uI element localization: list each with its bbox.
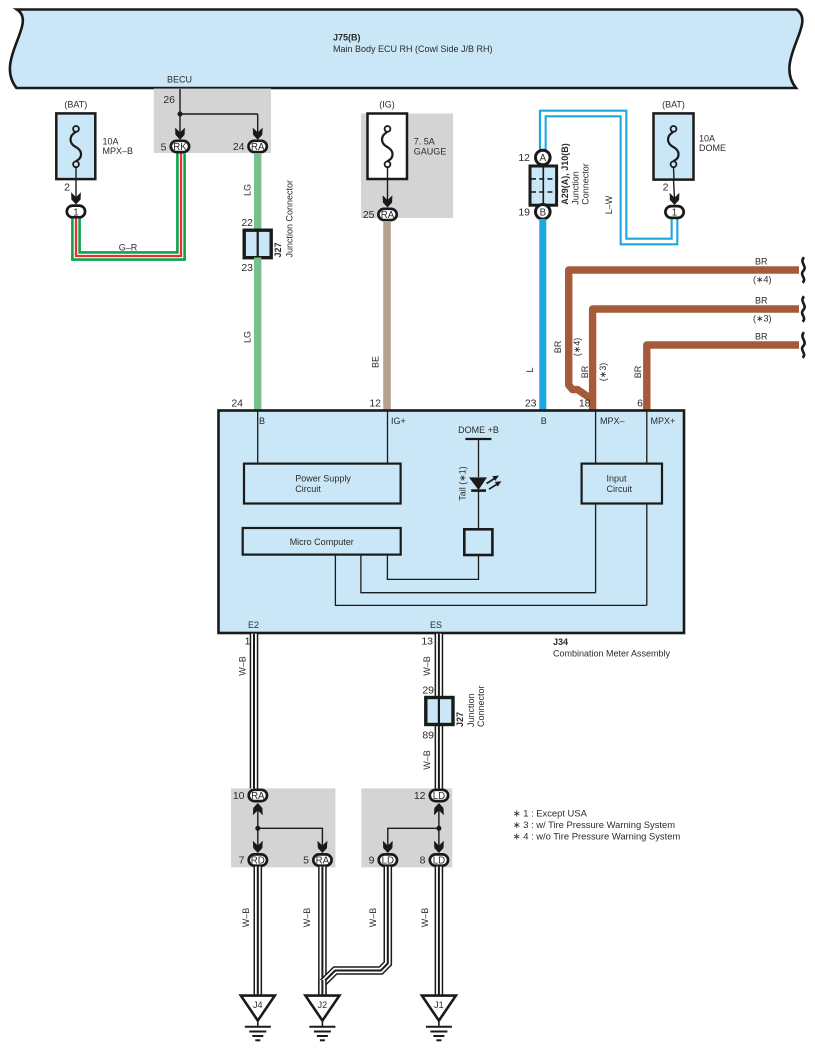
- wire L-W: [543, 114, 675, 242]
- svg-text:MPX–B: MPX–B: [103, 146, 134, 156]
- wire W-B to ground J1: [420, 867, 439, 997]
- svg-text:W–B: W–B: [368, 908, 378, 928]
- connector arrow into RD 7: [253, 841, 263, 853]
- svg-text:J2: J2: [318, 1000, 328, 1010]
- svg-text:Combination Meter Assembly: Combination Meter Assembly: [553, 649, 671, 659]
- svg-text:12: 12: [518, 152, 530, 164]
- ground J4: [241, 996, 275, 1041]
- svg-text:18: 18: [579, 398, 591, 410]
- svg-text:BR: BR: [755, 257, 768, 267]
- shaded relay block left (terminals 10/7/5): [231, 788, 335, 867]
- svg-text:J4: J4: [253, 1000, 263, 1010]
- input circuit block: [582, 464, 662, 504]
- svg-text:2: 2: [663, 182, 669, 194]
- terminal RA pin 24: [233, 141, 267, 153]
- svg-text:G–R: G–R: [119, 243, 138, 253]
- svg-text:LD: LD: [382, 856, 394, 867]
- svg-text:W–B: W–B: [422, 656, 432, 676]
- svg-text:LD: LD: [433, 856, 445, 867]
- connector arrow into LD 9: [383, 841, 393, 853]
- svg-text:B: B: [259, 416, 265, 426]
- svg-text:Micro Computer: Micro Computer: [290, 537, 354, 547]
- terminal RA pin 25: [363, 209, 397, 221]
- svg-text:1: 1: [73, 207, 78, 218]
- svg-text:Circuit: Circuit: [295, 484, 321, 494]
- wire BR (*3): [580, 296, 799, 412]
- svg-text:2: 2: [64, 182, 70, 194]
- connector arrow into LD 8: [434, 841, 444, 853]
- svg-text:W–B: W–B: [420, 908, 430, 928]
- wire fuse DOME to terminal 2: [663, 180, 675, 199]
- svg-text:89: 89: [422, 730, 434, 742]
- notes: [513, 808, 681, 842]
- wire W-B from LD 9 merging to J2: [323, 867, 388, 984]
- svg-text:J75(B): J75(B): [333, 32, 361, 42]
- svg-text:8: 8: [420, 855, 426, 867]
- wire BR (MPX+): [633, 332, 799, 412]
- svg-text:BR: BR: [553, 340, 563, 353]
- svg-text:(BAT): (BAT): [662, 100, 685, 110]
- internal wire pin12 IG+ to power supply: [387, 411, 389, 464]
- wire LG upper: [243, 153, 258, 231]
- wire L: [525, 219, 543, 411]
- connector arrow into terminal 1 (right): [670, 193, 680, 205]
- svg-text:B: B: [540, 207, 546, 218]
- wire BR (*4): [553, 257, 799, 400]
- connector arrow up into RA 10: [253, 803, 263, 815]
- svg-text:L–W: L–W: [604, 195, 614, 214]
- internal wires right relay block: [388, 809, 442, 847]
- svg-text:LG: LG: [243, 331, 253, 343]
- junction connector J27 (pins 22/23): [241, 180, 294, 274]
- internal wire pin24 B to power supply: [257, 411, 259, 464]
- svg-text:BR: BR: [755, 296, 768, 306]
- svg-text:Power Supply: Power Supply: [295, 474, 351, 484]
- svg-text:A: A: [540, 153, 547, 164]
- terminal LD pin 8: [420, 854, 448, 866]
- svg-text:∗ 1 : Except USA: ∗ 1 : Except USA: [513, 808, 588, 819]
- internal wires left relay block: [255, 809, 322, 847]
- svg-text:Main Body ECU RH (Cowl Side J/: Main Body ECU RH (Cowl Side J/B RH): [333, 44, 493, 54]
- wire W-B to ground J4: [241, 867, 258, 997]
- svg-text:W–B: W–B: [422, 750, 432, 770]
- terminal B pin 19: [518, 205, 550, 220]
- svg-text:13: 13: [421, 636, 433, 648]
- svg-text:BE: BE: [371, 356, 381, 368]
- terminal 1 (right): [665, 206, 683, 219]
- wire W-B re-straighten J2: [318, 980, 327, 996]
- svg-text:W–B: W–B: [241, 908, 251, 928]
- fuse DOME 10A (BAT): [654, 100, 727, 180]
- svg-text:Junction: Junction: [571, 171, 581, 205]
- svg-text:(∗3): (∗3): [753, 314, 772, 324]
- svg-text:ES: ES: [430, 620, 442, 630]
- connector arrow into RA 25: [383, 195, 393, 207]
- svg-text:GAUGE: GAUGE: [414, 146, 447, 156]
- terminal LD pin 9: [369, 854, 397, 866]
- svg-text:6: 6: [637, 398, 643, 410]
- svg-text:12: 12: [414, 790, 426, 802]
- svg-text:7: 7: [239, 855, 245, 867]
- svg-text:A29(A), J10(B): A29(A), J10(B): [560, 143, 570, 205]
- svg-text:IG+: IG+: [391, 416, 406, 426]
- svg-text:E2: E2: [248, 620, 259, 630]
- svg-text:Connector: Connector: [476, 685, 486, 727]
- wire break symbol BR3: [802, 332, 805, 358]
- internal routing wires: [335, 555, 646, 606]
- wire W-B from ES pin 13: [422, 634, 439, 790]
- svg-text:5: 5: [161, 142, 167, 154]
- shaded relay block right (terminals 12/9/8): [361, 788, 452, 867]
- connector arrow into RA 24: [253, 128, 263, 140]
- terminal RD pin 7: [239, 854, 267, 866]
- svg-text:7. 5A: 7. 5A: [414, 136, 435, 146]
- svg-text:RD: RD: [251, 856, 265, 867]
- svg-text:RA: RA: [251, 142, 265, 153]
- svg-text:Junction Connector: Junction Connector: [285, 180, 295, 258]
- svg-text:RA: RA: [316, 856, 330, 867]
- svg-text:J1: J1: [434, 1000, 444, 1010]
- svg-text:24: 24: [233, 141, 245, 153]
- wire W-B to ground J2: [302, 867, 322, 997]
- resistor block: [464, 529, 492, 555]
- svg-text:(∗3): (∗3): [598, 363, 608, 382]
- terminal A pin 12: [518, 150, 550, 165]
- wire G-R: [76, 154, 181, 257]
- svg-text:∗ 4 : w/o Tire Pressure Warnin: ∗ 4 : w/o Tire Pressure Warning System: [513, 831, 681, 842]
- svg-text:Input: Input: [607, 474, 628, 484]
- svg-text:(∗4): (∗4): [753, 275, 772, 285]
- svg-text:BR: BR: [580, 365, 590, 378]
- svg-text:19: 19: [518, 206, 530, 218]
- connector arrow into RK: [175, 128, 185, 140]
- svg-text:(IG): (IG): [379, 100, 395, 110]
- svg-text:LG: LG: [243, 184, 253, 196]
- svg-text:5: 5: [303, 855, 309, 867]
- svg-text:10A: 10A: [699, 134, 715, 144]
- svg-text:J27: J27: [455, 712, 465, 727]
- internal wire LED to resistor block: [478, 491, 480, 530]
- wire BECU pin 26: [163, 89, 257, 134]
- svg-text:MPX+: MPX+: [651, 416, 676, 426]
- svg-text:10A: 10A: [103, 136, 119, 146]
- svg-text:10: 10: [233, 790, 245, 802]
- svg-text:DOME +B: DOME +B: [458, 425, 499, 435]
- DOME +B terminal bar: [458, 425, 499, 477]
- wire break symbol BR2: [802, 296, 805, 322]
- combination meter assembly J34 box: [219, 398, 685, 659]
- LED Tail (*1): [458, 466, 502, 501]
- svg-text:(∗4): (∗4): [572, 338, 582, 357]
- svg-text:BR: BR: [755, 332, 768, 342]
- ground J1: [422, 996, 456, 1041]
- svg-text:12: 12: [369, 398, 381, 410]
- wire break symbol BR1: [802, 257, 805, 283]
- wire fuse to terminal 2: [64, 179, 76, 198]
- svg-text:24: 24: [231, 398, 243, 410]
- svg-text:RK: RK: [173, 142, 187, 153]
- svg-text:J34: J34: [553, 637, 568, 647]
- svg-text:BECU: BECU: [167, 75, 192, 85]
- internal wire pin18 MPX- to input circuit: [595, 411, 597, 593]
- svg-text:23: 23: [525, 398, 537, 410]
- connector arrow into terminal 1 (left): [71, 192, 81, 204]
- internal wire pin6 MPX+ to input circuit: [646, 411, 648, 605]
- BECU connector shaded block: [154, 75, 271, 154]
- terminal RA pin 10: [233, 790, 267, 802]
- svg-text:22: 22: [241, 217, 253, 229]
- wire fuse IG to terminal 25: [387, 179, 389, 201]
- svg-text:25: 25: [363, 209, 375, 221]
- junction connector J27 (pins 29/89): [422, 685, 486, 742]
- svg-text:RA: RA: [251, 791, 265, 802]
- ground J2: [305, 996, 339, 1041]
- IG shaded block: [361, 114, 453, 219]
- svg-text:RA: RA: [381, 210, 395, 221]
- svg-text:BR: BR: [633, 365, 643, 378]
- svg-text:9: 9: [369, 855, 375, 867]
- svg-text:Circuit: Circuit: [607, 484, 633, 494]
- power supply circuit block: [244, 464, 401, 504]
- svg-text:(BAT): (BAT): [64, 100, 87, 110]
- svg-text:Connector: Connector: [581, 163, 591, 205]
- svg-text:23: 23: [241, 262, 253, 274]
- fuse MPX-B 10A (BAT): [56, 100, 133, 180]
- svg-text:∗ 3 : w/ Tire Pressure Warning: ∗ 3 : w/ Tire Pressure Warning System: [513, 819, 675, 830]
- connector arrow into RA 5: [318, 841, 328, 853]
- svg-text:B: B: [541, 416, 547, 426]
- svg-text:DOME: DOME: [699, 143, 726, 153]
- svg-text:Tail (∗1): Tail (∗1): [458, 466, 468, 501]
- fuse GAUGE 7.5A (IG): [368, 100, 447, 180]
- terminal RA pin 5: [303, 854, 331, 866]
- connector arrow up into LD 12: [434, 803, 444, 815]
- svg-text:Junction: Junction: [466, 693, 476, 727]
- svg-text:J27: J27: [273, 242, 283, 257]
- svg-text:LD: LD: [433, 791, 445, 802]
- wire BE: [371, 221, 388, 411]
- junction connector A29(A), J10(B): [530, 143, 591, 205]
- terminal LD pin 12: [414, 790, 448, 802]
- svg-text:W–B: W–B: [302, 908, 312, 928]
- wire W-B from E2 pin 1: [238, 634, 255, 790]
- svg-text:L: L: [525, 367, 535, 372]
- micro computer block: [243, 528, 401, 555]
- J/B banner J75(B): [10, 10, 802, 89]
- svg-text:26: 26: [163, 94, 175, 106]
- svg-text:29: 29: [422, 685, 434, 697]
- terminal RK pin 5: [161, 141, 189, 154]
- svg-text:1: 1: [672, 208, 677, 219]
- wire LG lower: [243, 258, 258, 412]
- terminal 1 (left): [67, 206, 85, 219]
- svg-text:W–B: W–B: [238, 656, 248, 676]
- svg-text:MPX–: MPX–: [600, 416, 625, 426]
